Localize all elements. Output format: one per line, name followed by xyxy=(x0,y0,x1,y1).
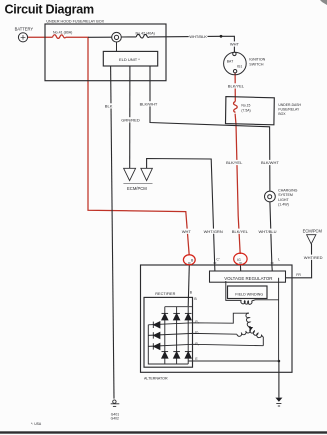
svg-text:BAT: BAT xyxy=(227,60,233,64)
svg-text:WHT/BLU: WHT/BLU xyxy=(259,229,277,234)
svg-text:BLK/YEL: BLK/YEL xyxy=(232,229,249,234)
svg-text:No.15: No.15 xyxy=(241,103,250,107)
svg-text:WHT/RED: WHT/RED xyxy=(304,255,323,260)
svg-text:LIGHT: LIGHT xyxy=(278,198,289,202)
svg-text:CHARGING: CHARGING xyxy=(278,189,298,193)
svg-text:B: B xyxy=(191,259,194,263)
svg-text:UNDER HOOD FUSE/RELAY BOX: UNDER HOOD FUSE/RELAY BOX xyxy=(46,20,104,24)
svg-text:IG1: IG1 xyxy=(237,65,243,69)
svg-text:BLK: BLK xyxy=(105,104,113,109)
svg-text:No.41 (80A): No.41 (80A) xyxy=(53,31,72,35)
svg-text:BLK/WHT: BLK/WHT xyxy=(261,160,279,165)
svg-text:IGNITION: IGNITION xyxy=(249,58,265,62)
svg-text:ALTERNATOR: ALTERNATOR xyxy=(144,377,168,381)
svg-text:L: L xyxy=(278,258,280,262)
svg-text:GRN/RED: GRN/RED xyxy=(121,117,140,122)
svg-text:BLK/YEL: BLK/YEL xyxy=(226,160,243,165)
svg-text:ECM/PCM: ECM/PCM xyxy=(303,229,323,234)
svg-text:BOX: BOX xyxy=(278,112,286,116)
svg-text:(7.5A): (7.5A) xyxy=(241,108,250,112)
svg-text:IG: IG xyxy=(237,258,241,262)
svg-text:FR: FR xyxy=(296,273,301,277)
svg-text:WHT/GRN: WHT/GRN xyxy=(204,229,223,234)
svg-text:(1.4W): (1.4W) xyxy=(278,203,289,207)
svg-text:RECTIFIER: RECTIFIER xyxy=(155,292,175,296)
svg-text:G402: G402 xyxy=(111,417,119,421)
svg-text:*: USA: *: USA xyxy=(31,422,42,426)
svg-text:B: B xyxy=(194,297,197,301)
svg-text:SWITCH: SWITCH xyxy=(249,62,264,66)
svg-text:BATTERY: BATTERY xyxy=(15,26,34,31)
svg-text:No.42 (40A): No.42 (40A) xyxy=(136,31,155,35)
svg-text:VOLTAGE REGULATOR: VOLTAGE REGULATOR xyxy=(224,276,272,281)
svg-text:Circuit Diagram: Circuit Diagram xyxy=(5,2,94,16)
svg-text:ELD UNIT *: ELD UNIT * xyxy=(119,57,140,62)
svg-text:WHT: WHT xyxy=(230,42,240,47)
svg-text:WHT/BLK: WHT/BLK xyxy=(189,34,207,39)
svg-text:B: B xyxy=(190,291,193,295)
svg-text:BLK/WHT: BLK/WHT xyxy=(140,101,158,106)
svg-text:SYSTEM: SYSTEM xyxy=(278,193,293,197)
svg-text:UNDER-DASH: UNDER-DASH xyxy=(278,103,301,107)
svg-text:P₃: P₃ xyxy=(195,342,199,346)
svg-text:FUSE/RELAY: FUSE/RELAY xyxy=(278,107,300,111)
svg-text:FIELD WINDING: FIELD WINDING xyxy=(235,293,263,297)
svg-text:BLK/YEL: BLK/YEL xyxy=(228,84,245,89)
svg-text:ECM/PCM: ECM/PCM xyxy=(127,186,147,191)
svg-text:C′: C′ xyxy=(216,258,219,262)
svg-text:WHT: WHT xyxy=(182,229,192,234)
